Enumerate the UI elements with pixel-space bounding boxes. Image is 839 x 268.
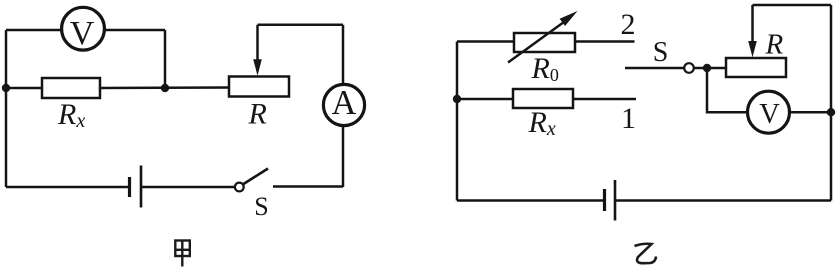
wire down to ammeter	[342, 25, 345, 85]
battery B2 short plate	[603, 189, 606, 211]
rheostat R wiper arrow (circuit 乙)	[751, 5, 754, 43]
wire node A to Rx	[6, 87, 42, 90]
wire R0 to terminal 2	[575, 40, 635, 43]
switch S pivot circle (circuit 甲)	[235, 183, 244, 192]
svg-text:S: S	[254, 192, 268, 221]
wire voltmeter to right corner	[104, 29, 165, 32]
battery B1 short plate	[128, 177, 131, 197]
battery B1 long plate	[140, 166, 143, 208]
svg-text:S: S	[653, 37, 669, 68]
wire ammeter to bottom	[342, 126, 345, 187]
wire top branch to R0	[457, 40, 514, 43]
battery B2 long plate	[614, 180, 617, 221]
wire wiper to ammeter branch	[258, 24, 344, 27]
resistor Rx (circuit 甲)	[42, 78, 100, 98]
switch S pivot circle (circuit 乙)	[684, 63, 694, 73]
rheostat R body (circuit 甲)	[229, 77, 289, 97]
wire voltmeter to node E	[790, 111, 832, 114]
rheostat R wiper arrow	[256, 25, 259, 61]
wire top-left to voltmeter	[6, 29, 61, 32]
wire wiper to right vertical	[753, 4, 832, 7]
switch S lever	[244, 169, 269, 185]
wire battery to right corner (circuit 乙)	[616, 199, 831, 202]
wire left vertical (circuit 甲)	[5, 30, 8, 187]
voltmeter V2 circle	[748, 91, 790, 133]
label 乙	[635, 244, 657, 263]
node E (right)	[827, 108, 835, 116]
wire right vertical (circuit 乙)	[830, 5, 833, 201]
voltmeter V1 circle	[62, 7, 105, 50]
svg-text:A: A	[332, 84, 357, 122]
wire right vertical of voltmeter branch	[164, 30, 167, 88]
rheostat R0 diagonal arrow	[508, 21, 566, 63]
rheostat R body (circuit 乙)	[726, 58, 786, 77]
svg-text:1: 1	[621, 102, 636, 135]
node A (left)	[2, 84, 10, 92]
wire bottom (circuit 乙) to battery	[457, 199, 603, 202]
wire Rx to terminal 1	[573, 98, 636, 101]
wire left vertical (circuit 乙)	[456, 42, 459, 201]
node D (switch output)	[703, 64, 711, 72]
wire bottom left to battery	[6, 186, 128, 189]
wire battery to switch	[142, 186, 235, 189]
switch S lever (circuit 乙)	[625, 67, 684, 70]
ammeter A1 circle	[323, 84, 364, 125]
svg-text:V: V	[70, 15, 95, 52]
wire node D down to voltmeter	[707, 68, 748, 112]
svg-text:R: R	[248, 98, 267, 131]
rheostat R0 body	[514, 33, 575, 52]
svg-text:R: R	[765, 29, 784, 61]
label 甲	[175, 241, 190, 267]
node C (left, circuit 乙)	[453, 95, 461, 103]
svg-text:2: 2	[621, 8, 636, 41]
wire node C to Rx	[457, 98, 513, 101]
resistor Rx (circuit 乙)	[513, 89, 573, 108]
node B (right of Rx)	[161, 84, 169, 92]
svg-text:V: V	[759, 99, 780, 130]
wire switch to right corner	[273, 185, 343, 188]
wire node D to R	[694, 67, 726, 70]
wire Rx to rheostat R	[100, 86, 229, 89]
